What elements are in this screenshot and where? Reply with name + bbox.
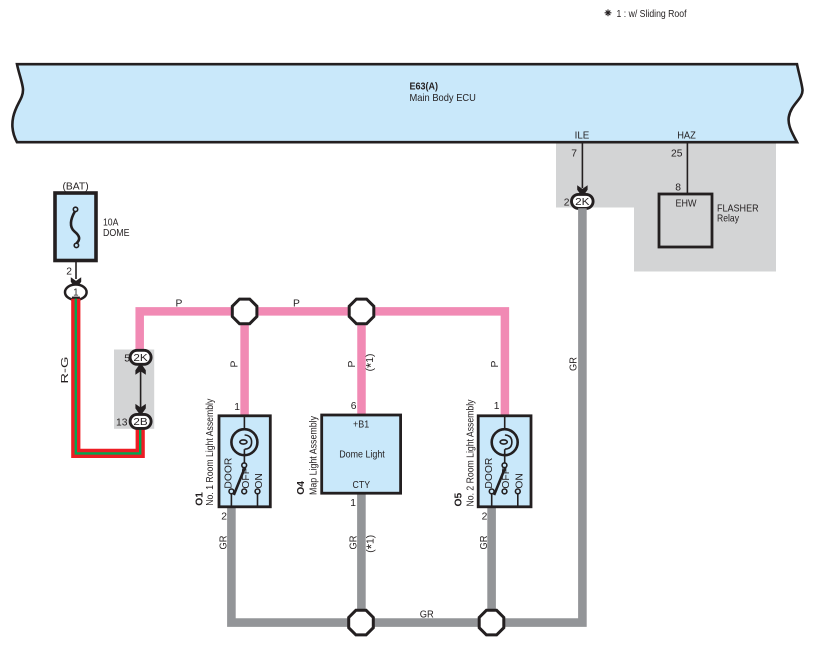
svg-text:R-G: R-G: [60, 357, 71, 384]
assembly O1 No. 1 Room Light Assembly: [219, 416, 270, 507]
svg-text:+B1: +B1: [353, 420, 369, 431]
svg-text:ON: ON: [254, 473, 265, 488]
svg-text:2: 2: [482, 511, 488, 522]
connector block 2K/2B shaded box: [114, 350, 154, 429]
svg-text:E63(A): E63(A): [410, 82, 439, 93]
label (*1) (under O4): [364, 535, 379, 553]
label O4 Map Light Assembly: [296, 415, 320, 495]
svg-text:ILE: ILE: [575, 131, 590, 142]
svg-text:CTY: CTY: [353, 480, 371, 491]
svg-text:Map Light Assembly: Map Light Assembly: [309, 415, 320, 495]
wire P bus (pink): [140, 311, 505, 416]
svg-text:2: 2: [564, 198, 570, 209]
svg-text:DOOR: DOOR: [484, 458, 495, 489]
shaded system region under ILE/HAZ: [556, 143, 776, 272]
svg-text:GR: GR: [349, 536, 360, 550]
svg-text:P: P: [293, 299, 300, 310]
wire junction arrows between 2K and 2B: [135, 365, 145, 413]
switch O1 (DOOR/OFF/ON): [224, 458, 266, 507]
svg-text:2: 2: [66, 267, 72, 278]
svg-text:No. 2 Room Light Assembly: No. 2 Room Light Assembly: [466, 399, 477, 507]
svg-text:GR: GR: [420, 610, 434, 621]
wire R-G (red with green stripe): [76, 299, 140, 454]
svg-text:DOME: DOME: [103, 228, 130, 239]
pin 2 of O5: [482, 511, 488, 522]
assembly O4 Map Light Assembly: [322, 415, 401, 493]
label GR (bottom bus): [420, 610, 434, 621]
svg-text:1: 1: [350, 498, 356, 509]
svg-text:Relay: Relay: [717, 214, 740, 225]
svg-text:Main Body ECU: Main Body ECU: [410, 93, 476, 104]
svg-text:P: P: [490, 361, 501, 368]
label P (bus middle): [293, 299, 300, 310]
wire ILE pin 7 to connector 2K: [571, 143, 587, 195]
junction J2: [349, 299, 374, 324]
svg-text:2K: 2K: [133, 353, 148, 364]
svg-text:DOOR: DOOR: [224, 458, 235, 489]
svg-text:O5: O5: [454, 492, 465, 506]
svg-text:O4: O4: [296, 481, 307, 495]
svg-text:ON: ON: [515, 473, 526, 488]
connector 2K (pin 5): [124, 350, 151, 364]
pin 1 of O4: [350, 498, 356, 509]
svg-text:1: 1: [234, 402, 240, 413]
pin 1 of O5: [494, 401, 500, 412]
connector 2B (pin 13): [116, 414, 151, 428]
svg-text:GR: GR: [479, 536, 490, 550]
label (*1) (drop to O4): [364, 354, 379, 372]
junction J4: [479, 610, 504, 635]
label GR (right vertical): [568, 357, 579, 371]
lamp O5: [492, 429, 518, 463]
wire GR from O4: [357, 493, 366, 622]
connector 1: [65, 285, 87, 301]
svg-text:OFF: OFF: [501, 468, 512, 489]
svg-text:GR: GR: [568, 357, 579, 371]
svg-text:5: 5: [124, 354, 130, 365]
label GR (under O1): [219, 536, 230, 550]
label P (drop to O4): [347, 361, 358, 368]
svg-text:1 : w/ Sliding Roof: 1 : w/ Sliding Roof: [617, 9, 687, 20]
svg-text:13: 13: [116, 418, 128, 429]
note *1 w/ Sliding Roof: [605, 9, 687, 20]
pin 6 of O4: [351, 401, 357, 412]
svg-text:2: 2: [221, 511, 227, 522]
switch O5 (DOOR/OFF/ON): [484, 458, 526, 507]
label GR (under O5): [479, 536, 490, 550]
assembly O5 No. 2 Room Light Assembly: [478, 416, 531, 507]
pin label ILE: [575, 131, 590, 142]
label GR (under O4): [349, 536, 360, 550]
svg-text:O1: O1: [195, 492, 206, 506]
fuse 10A DOME (BAT): [55, 182, 130, 261]
svg-text:2B: 2B: [133, 417, 148, 428]
svg-text:7: 7: [571, 149, 577, 160]
svg-text:2K: 2K: [575, 197, 590, 208]
svg-text:8: 8: [675, 183, 681, 194]
svg-text:EHW: EHW: [676, 199, 697, 210]
svg-text:P: P: [347, 361, 358, 368]
wire GR from O5: [487, 507, 496, 623]
connector 2K (ECU side, pin 2): [564, 194, 593, 208]
label R-G: [60, 357, 71, 384]
svg-text:OFF: OFF: [241, 468, 252, 489]
wire HAZ pin 25 to relay pin 8: [671, 143, 687, 194]
svg-text:1: 1: [494, 401, 500, 412]
pin label HAZ: [677, 131, 696, 142]
label P (drop to O5): [490, 361, 501, 368]
svg-text:No. 1 Room Light Assembly: No. 1 Room Light Assembly: [205, 398, 216, 506]
lamp O1: [231, 429, 257, 463]
label O1 No. 1 Room Light Assembly: [195, 398, 217, 506]
svg-text:10A: 10A: [103, 218, 119, 229]
wire GR main (2K down, bottom bus, up from O1): [231, 208, 582, 622]
junction J1: [232, 299, 257, 324]
svg-text:P: P: [176, 299, 183, 310]
wire fuse pin 2 to connector 1: [66, 261, 81, 287]
svg-text:HAZ: HAZ: [677, 131, 696, 142]
svg-text:GR: GR: [219, 536, 230, 550]
label O5 No. 2 Room Light Assembly: [454, 399, 477, 507]
svg-text:P: P: [230, 361, 241, 368]
svg-text:(BAT): (BAT): [63, 182, 89, 193]
label P (drop to O1): [230, 361, 241, 368]
ECU E63(A) Main Body ECU band: [12, 64, 802, 142]
svg-text:1: 1: [73, 287, 78, 298]
svg-text:25: 25: [671, 149, 683, 160]
svg-text:Dome Light: Dome Light: [339, 450, 385, 461]
label P (bus left): [176, 299, 183, 310]
pin 1 of O1: [234, 402, 240, 413]
relay EHW (FLASHER Relay): [659, 194, 759, 247]
junction J3: [349, 610, 374, 635]
svg-text:6: 6: [351, 401, 357, 412]
pin 2 of O1: [221, 511, 227, 522]
